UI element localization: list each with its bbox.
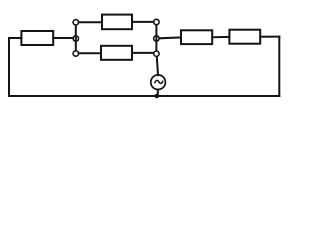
wire R4 to R5 xyxy=(212,36,229,38)
node C-right terminal xyxy=(154,51,159,56)
wire source bottom lead xyxy=(157,90,159,97)
node B-right terminal xyxy=(154,36,159,41)
wire R2 to node A-right xyxy=(132,21,156,23)
ac source U1 circle xyxy=(151,75,166,90)
wire R3 to node C-right xyxy=(132,52,156,54)
resistor R2 xyxy=(102,15,132,30)
wire left rail xyxy=(75,22,77,53)
wire source top lead xyxy=(157,54,158,75)
resistor R5 xyxy=(229,30,260,44)
junction dot at bottom bus xyxy=(155,94,160,99)
node B-left terminal xyxy=(73,36,78,41)
wire node C-left to R3 xyxy=(76,52,101,54)
wire bottom bus xyxy=(9,95,279,97)
wire right rail xyxy=(155,22,157,53)
wire node B-right to R4 xyxy=(160,36,181,39)
wire R5 to right corner xyxy=(260,36,279,38)
resistor R3 xyxy=(101,46,132,60)
wire left vertical xyxy=(8,38,10,96)
node C-left terminal xyxy=(73,51,78,56)
resistor R1 xyxy=(21,31,53,45)
wire R1 right lead to node B-left xyxy=(53,37,72,39)
wire R1 left lead xyxy=(9,37,21,39)
wire node A-left to R2 xyxy=(76,21,102,23)
wire right vertical xyxy=(278,37,280,96)
node A-left terminal xyxy=(73,20,78,25)
resistor R4 xyxy=(181,30,212,44)
ac source U1 sine symbol xyxy=(155,80,164,83)
node A-right terminal xyxy=(154,19,159,24)
